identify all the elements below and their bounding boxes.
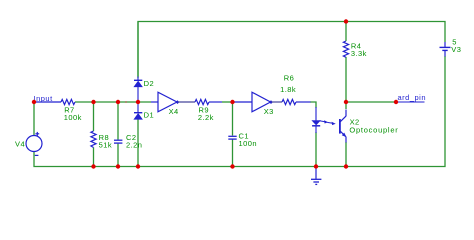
optocoupler X2 phototransistor <box>340 110 347 143</box>
wire R6 to LED corner <box>310 102 316 108</box>
optocoupler X2 LED <box>312 107 320 133</box>
svg-text:Input: Input <box>34 94 54 103</box>
node C2 bottom junction <box>116 164 120 168</box>
svg-text:100k: 100k <box>64 113 82 122</box>
node C1 top junction <box>230 100 234 104</box>
svg-text:Optocoupler: Optocoupler <box>349 125 398 134</box>
wire input node to V4 <box>33 102 35 136</box>
wire LED to bottom rail <box>315 132 317 167</box>
svg-text:X4: X4 <box>169 107 179 116</box>
node ard_pin junction <box>394 100 398 104</box>
capacitor C2 <box>114 140 122 143</box>
node D1 D2 junction <box>136 100 140 104</box>
wire bottom rail <box>34 56 445 167</box>
diode D1 <box>134 113 142 120</box>
svg-text:D2: D2 <box>144 79 155 88</box>
wire R4 top lead <box>345 22 347 42</box>
ground <box>311 167 321 185</box>
node Input junction <box>32 100 36 104</box>
svg-text:2.2n: 2.2n <box>126 140 142 149</box>
resistor R6 <box>272 99 311 104</box>
wire emitter to bottom rail <box>345 142 347 167</box>
svg-text:V4: V4 <box>15 140 25 149</box>
resistor R4 <box>343 41 348 57</box>
svg-text:ard_pin: ard_pin <box>398 93 427 102</box>
diode D2 <box>134 76 142 102</box>
node ground junction <box>314 164 318 168</box>
wire middle rail segment R7 to X4 <box>75 101 151 103</box>
node C2 top junction <box>116 100 120 104</box>
wire R8 leads <box>93 102 95 131</box>
op-amp buffer X3 <box>233 92 273 112</box>
wire C2 leads <box>117 102 119 140</box>
node R8 bottom junction <box>91 164 95 168</box>
svg-text:1.8k: 1.8k <box>280 85 296 94</box>
wire collector node to ard_pin <box>346 101 396 103</box>
wire D1 leads <box>137 102 139 112</box>
svg-text:R6: R6 <box>284 74 295 83</box>
svg-text:51k: 51k <box>99 140 112 149</box>
node D1 bottom junction <box>136 164 140 168</box>
node emitter bottom junction <box>344 164 348 168</box>
resistor R9 <box>178 99 222 104</box>
svg-text:2.2k: 2.2k <box>198 113 214 122</box>
node C1 bottom junction <box>230 164 234 168</box>
optocoupler X2 light arrows <box>319 120 335 125</box>
svg-text:V3: V3 <box>451 45 461 54</box>
voltage source V4 <box>26 132 42 156</box>
resistor R8 <box>91 131 96 148</box>
wire R4 bottom lead <box>345 57 347 102</box>
resistor R7 <box>34 99 75 104</box>
op-amp buffer X4 <box>151 92 179 112</box>
wire collector node <box>345 102 347 109</box>
wire R9 to C1 node <box>222 101 233 103</box>
node ard_pin <box>397 101 425 103</box>
wire D2 top lead <box>137 22 139 77</box>
svg-text:X3: X3 <box>264 107 274 116</box>
voltage source V3 battery <box>440 42 451 57</box>
svg-text:3.3k: 3.3k <box>351 49 367 58</box>
capacitor C1 <box>228 136 236 139</box>
svg-text:D1: D1 <box>144 111 155 120</box>
node collector junction <box>344 100 348 104</box>
node R8 top junction <box>91 100 95 104</box>
wire top rail <box>138 22 445 79</box>
node R4 top junction <box>344 19 348 23</box>
wire C1 leads <box>232 102 234 136</box>
wire post between C2 and D1 <box>125 101 127 103</box>
svg-text:100n: 100n <box>239 139 258 148</box>
